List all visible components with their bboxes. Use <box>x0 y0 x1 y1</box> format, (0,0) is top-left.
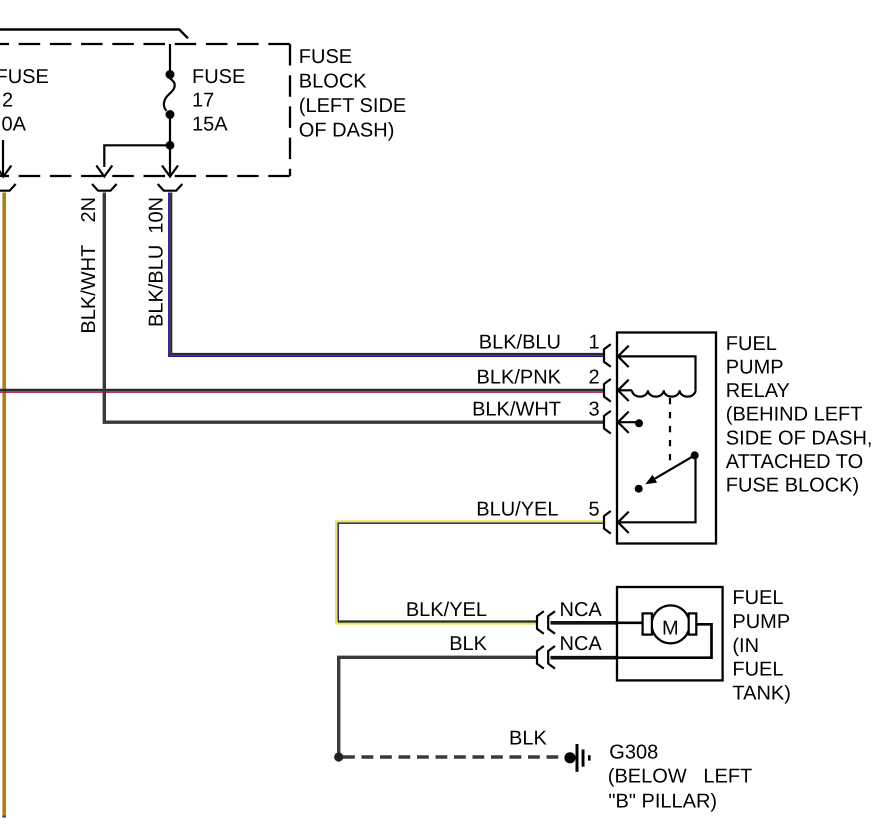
label BLK/YEL with NCA <box>406 599 603 621</box>
wire BLK/WHT (dark grey) to relay pin 3 <box>104 193 603 423</box>
fuse F17 value label <box>192 66 245 135</box>
svg-text:BLK/BLU: BLK/BLU <box>479 332 561 354</box>
wire BLK/YEL (black over yellow) to fuel pump <box>338 620 537 622</box>
arrow terminal 2N (male) <box>96 166 112 177</box>
svg-text:NCA: NCA <box>560 633 603 655</box>
svg-text:FUEL: FUEL <box>726 333 777 355</box>
svg-text:1: 1 <box>589 332 600 354</box>
fuel pump box <box>617 587 723 680</box>
svg-text:2: 2 <box>2 90 13 112</box>
svg-text:NCA: NCA <box>560 599 603 621</box>
fuse block dashed border <box>0 44 290 176</box>
wire BLU/YEL (yellow over blue) from relay pin 5 <box>336 521 603 623</box>
svg-text:(BELOW LEFT: (BELOW LEFT <box>608 765 752 787</box>
goldenrod wire end tip <box>2 815 6 817</box>
fuse block label <box>299 46 406 142</box>
svg-text:2: 2 <box>589 366 600 388</box>
relay female terminal pin 3 <box>604 411 611 434</box>
fuse F2 label (clipped at left edge) <box>0 66 49 135</box>
fuel pump internal loop from right brush <box>617 624 712 657</box>
female terminal cup below F2 <box>0 184 16 191</box>
svg-text:PUMP: PUMP <box>726 357 784 379</box>
female terminal cup 2N <box>92 184 117 191</box>
branch wire to 2N terminal <box>104 145 170 167</box>
svg-text:TANK): TANK) <box>732 683 791 705</box>
wire feed to fuse 17 (top, from ignition switch) <box>0 30 188 39</box>
svg-text:BLK/BLU 10N: BLK/BLU 10N <box>145 197 167 327</box>
svg-text:17: 17 <box>192 90 214 112</box>
wire BLK (fuel pump ground side) <box>339 657 537 755</box>
NCA stub wire to pump (row 1) <box>551 621 618 625</box>
fuel pump label <box>732 587 791 705</box>
wire BLK dashed to ground <box>343 755 561 758</box>
relay coil <box>632 390 696 396</box>
label BLK/BLU 10N (rotated) <box>145 197 167 327</box>
relay female terminal pin 2 <box>604 379 611 402</box>
female terminal cup 10N <box>158 184 183 191</box>
svg-text:SIDE OF DASH,: SIDE OF DASH, <box>726 427 873 449</box>
svg-text:0A: 0A <box>2 113 27 135</box>
svg-text:FUEL: FUEL <box>732 587 783 609</box>
svg-text:(IN: (IN <box>732 635 759 657</box>
relay pin 2 arrow <box>618 380 632 401</box>
svg-text:G308: G308 <box>609 741 658 763</box>
svg-text:RELAY: RELAY <box>726 380 790 402</box>
svg-text:(BEHIND LEFT: (BEHIND LEFT <box>726 404 863 426</box>
svg-text:15A: 15A <box>192 113 228 135</box>
svg-text:FUEL: FUEL <box>732 659 783 681</box>
arrow terminal 10N (male) <box>162 166 178 177</box>
motor M1 circle <box>643 605 697 643</box>
svg-text:"B" PILLAR): "B" PILLAR) <box>608 790 717 812</box>
ground G308 label <box>608 741 752 812</box>
relay switch arm with pivot and contact <box>635 451 699 492</box>
svg-text:FUSE BLOCK): FUSE BLOCK) <box>726 475 859 497</box>
relay U1 box <box>617 333 716 544</box>
relay label <box>726 333 873 497</box>
svg-text:BLK: BLK <box>509 728 547 750</box>
relay pin 3 arrow and fixed contact <box>618 412 643 433</box>
label BLU/YEL pin 5 <box>476 498 599 520</box>
NCA stub wire to pump (row 2) <box>551 656 618 660</box>
wire (goldenrod, from fuse 2, runs to bottom) <box>2 193 6 816</box>
wire BLK/BLU (black over blue) to relay pin 1 <box>169 193 604 357</box>
label BLK/PNK pin 2 <box>477 366 600 388</box>
svg-text:M: M <box>662 618 679 640</box>
fuse F17 symbol <box>164 44 175 175</box>
wire BLK/PNK (black over pink) to relay pin 2 <box>0 390 604 392</box>
relay pin 5 arrow and arm feed <box>618 455 696 533</box>
svg-text:FUSE: FUSE <box>299 46 352 68</box>
relay pin 1 arrow and coil feed <box>618 346 696 391</box>
label BLK/BLU pin 1 <box>479 332 600 354</box>
svg-text:OF DASH): OF DASH) <box>299 120 395 142</box>
svg-text:BLU/YEL: BLU/YEL <box>476 498 558 520</box>
ground wire splice dot <box>334 752 343 761</box>
svg-text:BLOCK: BLOCK <box>299 71 367 93</box>
relay female terminal pin 5 <box>604 511 611 534</box>
svg-text:BLK/YEL: BLK/YEL <box>406 599 487 621</box>
svg-text:ATTACHED TO: ATTACHED TO <box>726 451 863 473</box>
svg-text:BLK/PNK: BLK/PNK <box>477 366 562 388</box>
svg-text:FUSE: FUSE <box>0 66 49 88</box>
junction dot on fuse 17 output <box>166 141 175 150</box>
relay female terminal pin 1 <box>604 344 611 367</box>
in-line connector brackets BLK/YEL row <box>537 611 555 634</box>
svg-text:(LEFT SIDE: (LEFT SIDE <box>299 95 406 117</box>
svg-text:BLK: BLK <box>449 633 487 655</box>
ground G308 symbol <box>564 744 590 772</box>
label BLK/WHT 2N (rotated) <box>78 197 100 334</box>
label BLK with NCA <box>449 633 602 655</box>
fuel pump internal wire to left brush <box>617 621 643 624</box>
label BLK (ground wire) <box>509 728 547 750</box>
svg-text:FUSE: FUSE <box>192 66 245 88</box>
in-line connector brackets BLK row <box>537 646 555 669</box>
relay actuator dashed link <box>669 398 671 461</box>
svg-text:PUMP: PUMP <box>732 611 790 633</box>
label BLK/WHT pin 3 <box>472 398 600 420</box>
svg-text:3: 3 <box>589 398 600 420</box>
svg-text:BLK/WHT 2N: BLK/WHT 2N <box>78 197 100 334</box>
svg-text:5: 5 <box>589 498 600 520</box>
svg-text:BLK/WHT: BLK/WHT <box>472 398 561 420</box>
fuse F2 output wire with arrow <box>0 140 11 177</box>
